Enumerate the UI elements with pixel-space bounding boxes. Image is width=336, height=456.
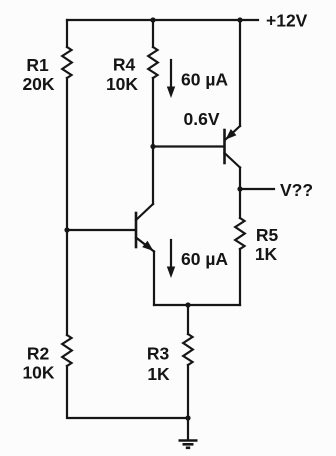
wire: lower middle horizontal (Q1 emitter to R5 bottom)	[154, 304, 240, 306]
wire: right branch emitter drop from rail	[239, 20, 241, 126]
transistor Q2 bar	[223, 130, 226, 163]
svg-text:60 µA: 60 µA	[181, 249, 228, 269]
wire: R5 lower	[239, 249, 241, 305]
current arrow I1 head	[167, 87, 175, 99]
resistor R5 zigzag	[235, 218, 245, 249]
wire: left branch to bottom rail	[67, 366, 188, 418]
svg-text:10K: 10K	[106, 74, 138, 94]
resistor R1 zigzag	[62, 47, 72, 78]
svg-text:1K: 1K	[255, 244, 278, 264]
resistor R2 zigzag	[62, 335, 72, 366]
svg-text:R3: R3	[147, 344, 170, 364]
node: Q2 base tap on middle branch	[150, 144, 155, 149]
current arrow I1 line (60 uA upper)	[170, 60, 172, 89]
resistor R3 zigzag	[183, 334, 193, 365]
svg-text:R5: R5	[256, 225, 279, 245]
transistor Q2 emitter arrowhead	[226, 129, 237, 140]
svg-text:0.6V: 0.6V	[184, 109, 220, 129]
wire: middle branch (R4 down past base tap to Q1 collector)	[152, 78, 154, 204]
wire: +12V top supply rail	[67, 19, 258, 21]
node: V?? output node	[237, 186, 242, 191]
transistor Q1 bar	[135, 213, 138, 247]
svg-text:V??: V??	[280, 180, 313, 200]
transistor Q1 collector diagonal	[136, 204, 153, 220]
node: base tap on left branch	[64, 227, 69, 232]
wire: left branch lower (base node to R2)	[66, 230, 68, 335]
ground symbol	[179, 439, 198, 442]
current arrow I2 line (60 uA lower)	[170, 240, 172, 269]
wire: R3 upper	[187, 305, 189, 334]
current arrow I2 head	[167, 267, 175, 279]
svg-text:R2: R2	[27, 344, 50, 364]
svg-text:20K: 20K	[22, 74, 54, 94]
wire: left branch upper (rail corner down to R1)	[66, 20, 68, 47]
wire: ground stub	[187, 418, 189, 440]
wire: Q1 base wire	[67, 229, 135, 231]
wire: left branch middle (R1 to base node)	[66, 78, 68, 230]
wire: Q1 emitter down to lower node	[153, 252, 155, 306]
svg-text:1K: 1K	[147, 364, 170, 384]
wire: Q2 base wire from middle branch	[153, 145, 224, 147]
resistor R4 zigzag	[148, 47, 158, 78]
svg-text:+12V: +12V	[266, 11, 308, 31]
transistor Q1 emitter arrowhead	[142, 241, 153, 251]
svg-text:60 µA: 60 µA	[181, 70, 228, 90]
node: rail junction at Q2 emitter	[237, 17, 242, 22]
svg-text:10K: 10K	[22, 363, 54, 383]
transistor Q2 collector diagonal	[225, 153, 241, 168]
wire: V?? tap	[240, 188, 274, 190]
wire: middle branch upper (rail down to R4)	[152, 20, 154, 47]
transistor Q2 emitter diagonal	[226, 126, 241, 140]
svg-text:R1: R1	[26, 55, 49, 75]
wire: Q2 collector down to V?? node and R5	[239, 168, 241, 219]
svg-text:R4: R4	[113, 55, 136, 75]
wire: R3 lower to bottom rail	[187, 365, 189, 418]
node: bottom rail junction at R3	[185, 415, 190, 420]
node: R3 top junction	[185, 302, 190, 307]
node: rail junction at R4 top	[150, 17, 155, 22]
transistor Q1 emitter diagonal	[136, 238, 154, 252]
